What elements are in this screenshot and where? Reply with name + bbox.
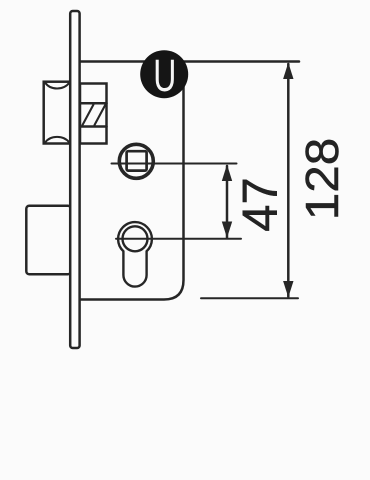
spindle hole square xyxy=(127,151,147,170)
deadbolt xyxy=(26,206,71,274)
lock body top edge / 128 top extension line xyxy=(80,60,299,63)
dimension line 47 xyxy=(226,166,229,238)
U badge circle xyxy=(140,50,188,98)
latch housing hatch line 1 xyxy=(83,105,94,126)
47 bottom extension line xyxy=(116,238,241,240)
47 top extension line xyxy=(112,163,237,165)
latch housing hatch line 2 xyxy=(95,105,106,126)
spindle hole outer circle xyxy=(119,144,153,178)
euro cylinder outer profile xyxy=(118,222,152,286)
arrowhead 47 top xyxy=(222,165,232,182)
arrowhead 47 bottom xyxy=(222,222,232,238)
latch bolt top bevel curve xyxy=(45,83,70,89)
lock body outline xyxy=(80,66,184,300)
dimension line 128 xyxy=(287,64,290,297)
latch housing divider upper xyxy=(80,102,107,105)
svg-text:47: 47 xyxy=(234,177,288,232)
faceplate xyxy=(70,11,79,348)
latch bolt xyxy=(44,82,71,144)
euro cylinder inner circle xyxy=(123,226,148,251)
svg-text:U: U xyxy=(153,52,176,102)
arrowhead 128 top xyxy=(283,63,293,80)
arrowhead 128 bottom xyxy=(283,281,293,297)
latch housing xyxy=(80,84,107,144)
latch housing divider lower xyxy=(80,125,107,128)
latch bolt bottom bevel curve xyxy=(45,137,70,143)
svg-text:128: 128 xyxy=(298,138,349,220)
128 bottom extension line xyxy=(201,297,298,299)
